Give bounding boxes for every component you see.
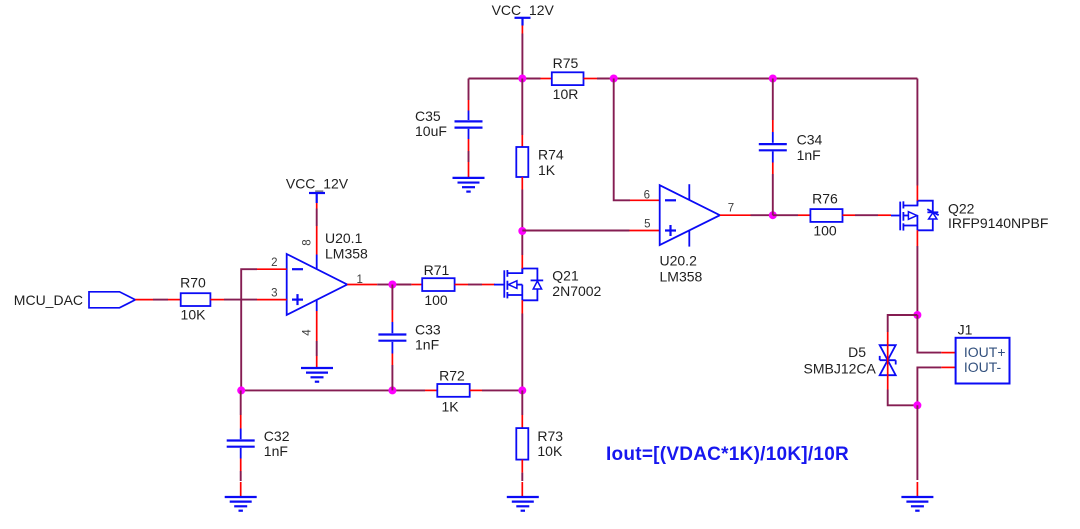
wire U20.1 output pin1 [347,284,411,286]
transistor Q21 [494,268,602,301]
ground (R73) [507,497,539,511]
connector J1 [956,321,1010,383]
svg-text:5: 5 [644,219,650,231]
wire node to U20.2 pin5 [522,230,659,232]
svg-text:C35: C35 [415,108,441,124]
svg-text:1nF: 1nF [797,147,821,163]
capacitor C34 [759,79,823,216]
svg-text:IRFP9140NPBF: IRFP9140NPBF [948,215,1048,231]
resistor R73 [516,390,563,497]
wire U20.1 pin2 feedback [241,269,287,390]
svg-text:IOUT-: IOUT- [964,359,1002,375]
wire top rail to Q22 [916,79,918,201]
wire IOUT- [917,367,955,405]
capacitor C35 [415,108,483,178]
wire MCU_DAC to R70 [153,299,168,301]
svg-text:R73: R73 [537,428,563,444]
node junction pin1 [388,281,396,289]
resistor R76 [773,191,855,239]
node junction pin7 [769,211,777,219]
svg-text:1nF: 1nF [264,443,288,459]
node junction D5-IOUT- [913,401,921,409]
svg-text:R72: R72 [439,367,465,383]
resistor R72 [425,367,482,414]
svg-text:10uF: 10uF [415,123,447,139]
wire D5 bottom branch [888,390,918,406]
wire U20.2 output pin7 [720,214,773,216]
transistor Q22 [891,200,1048,230]
svg-text:3: 3 [271,288,277,300]
svg-text:MCU_DAC: MCU_DAC [14,292,83,308]
svg-text:1K: 1K [441,398,459,414]
svg-text:Q21: Q21 [552,268,579,284]
svg-text:4: 4 [301,329,313,336]
wire Q21 source down [521,300,523,390]
svg-text:10K: 10K [181,306,207,322]
svg-text:8: 8 [301,239,313,245]
wire IOUT- to ground [916,405,918,497]
capacitor C33 [378,285,440,391]
svg-text:R74: R74 [538,147,564,163]
op-amp U20.2 [660,184,720,284]
node junction top-R74 [610,75,618,83]
ground (C35) [453,178,485,192]
svg-text:VCC_12V: VCC_12V [492,2,555,18]
svg-text:100: 100 [813,223,837,239]
svg-text:SMBJ12CA: SMBJ12CA [804,361,877,377]
wire top rail to U20.2 pin6 [614,79,660,201]
svg-text:U20.2: U20.2 [660,252,698,268]
svg-text:2N7002: 2N7002 [552,283,601,299]
node junction top-C34 [769,75,777,83]
svg-text:D5: D5 [848,344,866,360]
svg-text:10K: 10K [537,443,563,459]
wire IOUT+ [917,315,955,353]
wire feedback rail [241,389,522,391]
wire D5 top branch [888,315,918,332]
wire R76 to Q22 gate [855,214,891,216]
power VCC_12V (top) [492,2,555,79]
svg-text:C34: C34 [797,131,823,147]
svg-text:IOUT+: IOUT+ [964,344,1006,360]
svg-text:100: 100 [424,292,448,308]
svg-text:LM358: LM358 [660,269,703,285]
svg-text:R76: R76 [812,191,838,207]
node junction feedback-right [518,386,526,394]
svg-text:1K: 1K [538,162,556,178]
node junction R74-Q21-pin5 [518,227,526,235]
svg-text:6: 6 [644,189,650,201]
node junction Q22-D5-IOUT+ [913,311,921,319]
wire Q22 drain down [916,230,918,315]
op-amp U20.1 [287,230,368,315]
node junction feedback-left [237,386,245,394]
svg-text:J1: J1 [958,321,973,337]
wire R71 to Q21 gate [468,284,495,286]
svg-text:Iout=[(VDAC*1K)/10K]/10R: Iout=[(VDAC*1K)/10K]/10R [606,444,849,465]
wire top rail [469,78,918,80]
svg-text:7: 7 [728,203,734,215]
svg-text:C33: C33 [415,321,441,337]
svg-text:LM358: LM358 [325,245,368,261]
resistor R70 [168,275,224,323]
wire Q21 drain to node [521,231,523,269]
svg-text:10R: 10R [553,86,579,102]
resistor R75 [541,55,598,102]
svg-text:2: 2 [271,257,277,269]
svg-text:VCC_12V: VCC_12V [286,175,349,191]
wire VCC rail to R74 [521,79,523,232]
diode D5 TVS [804,332,896,390]
port MCU_DAC [14,292,153,308]
wire U20.1 pin4 to ground [316,300,318,368]
svg-text:R75: R75 [553,55,579,71]
svg-text:1nF: 1nF [415,337,439,353]
power VCC_12V (U20.1 pin 8) [286,175,349,269]
node junction top-VCC [518,75,526,83]
wire R70 to U20.1 pin3 [224,299,287,301]
resistor R74 [516,135,564,190]
ground (right) [901,497,933,511]
ground (C32) [225,497,257,511]
capacitor C32 [227,390,290,497]
svg-text:C32: C32 [264,428,290,444]
svg-text:R71: R71 [424,262,450,278]
node junction feedback-C33 [388,386,396,394]
ground (U20.1 pin4) [301,368,333,382]
wire C35 branch [468,79,470,111]
svg-text:U20.1: U20.1 [325,230,363,246]
svg-text:R70: R70 [180,275,206,291]
resistor R71 [411,262,468,308]
